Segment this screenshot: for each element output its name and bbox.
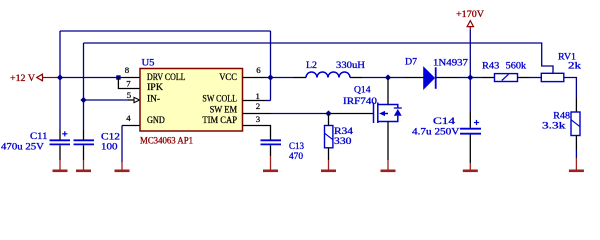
svg-text:DRV COLL: DRV COLL (147, 72, 186, 82)
svg-text:1N4937: 1N4937 (433, 59, 468, 69)
ground C14 (469, 135, 471, 163)
ground C13 (270, 145, 272, 156)
svg-text:GND: GND (147, 115, 165, 125)
svg-text:R34: R34 (334, 127, 353, 137)
wire RV1 to R48 (564, 78, 577, 99)
svg-text:SW EM: SW EM (210, 105, 237, 115)
resistor R48 (571, 112, 580, 136)
svg-text:7: 7 (126, 78, 131, 88)
node junction pin5 feedback (80, 97, 86, 103)
svg-text:330: 330 (334, 137, 352, 147)
pin 3 wire to C13 (243, 126, 271, 140)
pin 4 wire to ground (122, 125, 140, 127)
wire pin2 gate drive (243, 113, 272, 115)
wire +170V to output node (469, 30, 471, 78)
pin labels inside U5 (147, 72, 237, 125)
wire main +12V rail (58, 77, 119, 79)
ground R48 (575, 136, 577, 151)
svg-text:IN-: IN- (147, 94, 160, 104)
svg-text:C11: C11 (30, 132, 48, 142)
svg-text:C12: C12 (101, 133, 120, 143)
svg-text:1: 1 (255, 91, 259, 101)
pin numbers (125, 65, 261, 124)
wire vertical +12V rail to C11 (59, 31, 61, 130)
pin 5 wire (84, 99, 129, 101)
svg-text:IRF740: IRF740 (343, 97, 377, 107)
resistor R43 (470, 77, 482, 79)
svg-text:+170V: +170V (456, 10, 484, 20)
svg-text:6: 6 (256, 65, 261, 75)
pin 7 link (118, 78, 140, 89)
ground Q14 source (381, 160, 396, 171)
ground C12 (83, 145, 85, 160)
svg-text:R43: R43 (482, 62, 500, 72)
capacitor C13 (261, 140, 282, 144)
svg-text:5: 5 (127, 90, 132, 100)
svg-text:VCC: VCC (219, 72, 237, 82)
svg-text:470u 25V: 470u 25V (1, 143, 44, 153)
Q14 source lead to ground (387, 122, 389, 161)
ground R34 (328, 148, 330, 160)
svg-text:470: 470 (289, 152, 303, 162)
wire feedback top inner to RV1 wiper (84, 43, 554, 73)
wire L2 to drain node (350, 77, 362, 79)
wire D7 cathode to output node (437, 77, 459, 79)
node junction drain (385, 74, 391, 80)
node junction pin8/pin7 (116, 75, 120, 79)
svg-text:560k: 560k (506, 62, 527, 72)
svg-text:3: 3 (256, 114, 261, 124)
svg-text:D7: D7 (405, 58, 417, 68)
pin 6 stub (243, 77, 266, 79)
ground pin4 (115, 162, 130, 171)
node junction gate/R34 (325, 110, 331, 116)
pin 8 stub (118, 77, 140, 79)
capacitor C14 (460, 120, 481, 134)
capacitor C12 (74, 140, 95, 144)
wire output node down to C14 (469, 78, 471, 113)
pin 1 stub (243, 100, 266, 102)
IC U5 MC34063AP1 (140, 69, 243, 132)
svg-text:100: 100 (101, 142, 118, 152)
Q14 drain lead (387, 78, 389, 105)
wire feedback vertical to pin5 and C12 (83, 43, 85, 130)
svg-text:IPK: IPK (147, 82, 164, 92)
svg-text:4.7u 250V: 4.7u 250V (412, 128, 460, 138)
svg-text:TIM CAP: TIM CAP (202, 115, 237, 125)
svg-text:Q14: Q14 (354, 85, 371, 95)
svg-text:2k: 2k (568, 61, 581, 71)
Q14 body diode triangle (394, 109, 402, 116)
pin 5 input arrow (134, 97, 140, 102)
svg-text:L2: L2 (306, 61, 317, 71)
wire drain to D7 (388, 77, 404, 79)
svg-text:C14: C14 (433, 117, 455, 127)
svg-text:8: 8 (125, 65, 130, 75)
node junction output (467, 74, 473, 80)
wire top outer +12V to VCC loop (60, 31, 271, 101)
wire pin6 to L2 (271, 77, 294, 79)
node junction +12V rail / C11 (57, 74, 63, 80)
capacitor C11 (50, 131, 71, 144)
svg-text:4: 4 (126, 113, 131, 123)
svg-text:C13: C13 (289, 142, 304, 152)
svg-text:330uH: 330uH (336, 61, 365, 71)
svg-text:MC34063 AP1: MC34063 AP1 (140, 136, 193, 146)
inductor L2 (306, 72, 350, 77)
svg-text:R48: R48 (553, 112, 570, 122)
transistor Q14 IRF740 MOSFET (374, 103, 402, 124)
svg-text:SW COLL: SW COLL (202, 94, 237, 104)
potentiometer RV1 (541, 73, 564, 81)
node +12V port (37, 74, 58, 81)
svg-text:2: 2 (256, 101, 260, 111)
svg-text:3.3k: 3.3k (542, 121, 566, 131)
diode D7 (424, 67, 435, 89)
node junction pin6/top loop (267, 74, 273, 80)
Q14 body arrow (379, 111, 385, 116)
resistor R34 (328, 114, 330, 126)
svg-text:+12 V: +12 V (10, 74, 35, 84)
svg-text:U5: U5 (142, 59, 155, 69)
ground C11 (59, 145, 61, 160)
